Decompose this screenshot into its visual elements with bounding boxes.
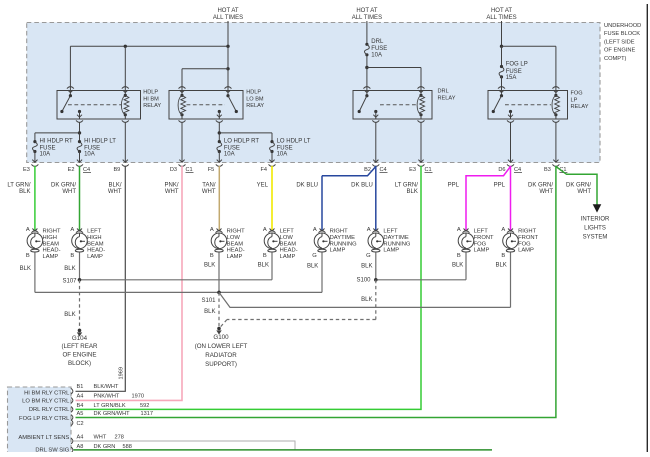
svg-text:A: A: [313, 227, 317, 233]
svg-text:INTERIOR: INTERIOR: [581, 216, 610, 222]
svg-text:DK GRN/WHT: DK GRN/WHT: [94, 411, 131, 417]
svg-text:LO BM RLY CTRL: LO BM RLY CTRL: [22, 399, 70, 405]
svg-text:OF ENGINE: OF ENGINE: [604, 48, 635, 54]
svg-text:PPL: PPL: [494, 182, 506, 188]
svg-text:S101: S101: [201, 298, 216, 304]
svg-text:HI HDLP RT: HI HDLP RT: [40, 139, 73, 145]
svg-text:10A: 10A: [371, 53, 382, 59]
svg-text:ALL TIMES: ALL TIMES: [213, 15, 243, 21]
svg-text:LEFT: LEFT: [383, 229, 398, 235]
svg-text:DK GRN/: DK GRN/: [528, 182, 553, 188]
svg-text:A8: A8: [77, 444, 84, 450]
svg-text:LIGHTS: LIGHTS: [584, 226, 606, 232]
svg-text:LO BM: LO BM: [246, 96, 264, 102]
svg-text:278: 278: [115, 435, 124, 441]
svg-text:LAMP: LAMP: [43, 254, 59, 260]
svg-text:BLK: BLK: [64, 312, 75, 318]
svg-text:RELAY: RELAY: [438, 95, 456, 101]
svg-text:HDLP: HDLP: [143, 90, 158, 96]
svg-text:A4: A4: [77, 393, 84, 399]
svg-text:RUNNING: RUNNING: [383, 241, 411, 247]
svg-text:DK BLU: DK BLU: [296, 182, 318, 188]
svg-text:B: B: [263, 253, 267, 259]
svg-text:BLK: BLK: [204, 309, 215, 315]
svg-text:B: B: [457, 253, 461, 259]
svg-text:B: B: [26, 253, 30, 259]
svg-text:DRL SW SIG: DRL SW SIG: [35, 448, 69, 452]
svg-text:WHT: WHT: [62, 189, 76, 195]
svg-text:592: 592: [140, 403, 149, 409]
svg-text:B3: B3: [544, 167, 551, 173]
svg-text:S107: S107: [62, 278, 77, 284]
svg-text:HEAD-: HEAD-: [280, 248, 298, 254]
svg-text:LAMP: LAMP: [87, 254, 103, 260]
svg-text:BLK: BLK: [361, 264, 372, 270]
svg-text:BLK: BLK: [407, 189, 418, 195]
svg-text:(ON LOWER LEFT: (ON LOWER LEFT: [195, 343, 248, 350]
svg-text:F5: F5: [208, 167, 215, 173]
svg-text:YEL: YEL: [257, 182, 269, 188]
svg-text:DAYTIME: DAYTIME: [330, 235, 355, 241]
svg-text:WHT: WHT: [202, 189, 216, 195]
svg-text:PNK/WHT: PNK/WHT: [94, 393, 120, 399]
svg-text:1970: 1970: [132, 393, 144, 399]
svg-text:G104: G104: [72, 335, 88, 342]
svg-text:LEFT: LEFT: [87, 229, 102, 235]
svg-text:B1: B1: [77, 384, 84, 390]
svg-text:BLK: BLK: [258, 263, 269, 269]
svg-text:BEAM: BEAM: [280, 241, 297, 247]
svg-text:WHT: WHT: [577, 189, 591, 195]
svg-text:10A: 10A: [40, 151, 51, 157]
svg-text:G100: G100: [213, 334, 229, 341]
svg-text:RIGHT: RIGHT: [518, 229, 536, 235]
svg-text:LOW: LOW: [227, 235, 241, 241]
svg-text:COMPT): COMPT): [604, 56, 627, 62]
svg-text:WHT: WHT: [94, 435, 107, 441]
svg-text:B4: B4: [77, 403, 84, 409]
svg-text:BLK: BLK: [361, 297, 372, 303]
svg-text:A4: A4: [77, 435, 84, 441]
svg-text:FUSE: FUSE: [506, 69, 522, 75]
svg-text:RELAY: RELAY: [246, 103, 264, 109]
svg-text:HDLP: HDLP: [246, 90, 261, 96]
svg-text:HI HDLP LT: HI HDLP LT: [84, 139, 116, 145]
svg-text:A: A: [26, 227, 30, 233]
svg-text:FOG LP: FOG LP: [506, 62, 528, 68]
svg-text:A: A: [70, 227, 74, 233]
svg-text:HOT AT: HOT AT: [217, 8, 238, 14]
svg-text:SUPPORT): SUPPORT): [205, 361, 237, 368]
svg-text:A: A: [263, 227, 267, 233]
svg-text:BLK/: BLK/: [108, 182, 121, 188]
svg-text:E3: E3: [23, 167, 30, 173]
svg-text:RIGHT: RIGHT: [43, 229, 61, 235]
svg-text:FUSE BLOCK: FUSE BLOCK: [604, 31, 640, 37]
svg-text:A: A: [367, 227, 371, 233]
svg-text:10A: 10A: [277, 151, 288, 157]
svg-text:A: A: [457, 227, 461, 233]
svg-text:E2: E2: [68, 167, 75, 173]
svg-text:ALL TIMES: ALL TIMES: [486, 15, 516, 21]
svg-text:FOG: FOG: [518, 241, 531, 247]
svg-text:BEAM: BEAM: [87, 241, 104, 247]
svg-text:LAMP: LAMP: [474, 248, 490, 254]
svg-text:G: G: [312, 253, 317, 259]
svg-text:HEAD-: HEAD-: [43, 248, 61, 254]
svg-text:SYSTEM: SYSTEM: [583, 235, 608, 241]
svg-text:LO HDLP LT: LO HDLP LT: [277, 139, 311, 145]
svg-text:15A: 15A: [506, 75, 517, 81]
svg-text:LP: LP: [571, 98, 578, 104]
svg-text:DK GRN/: DK GRN/: [51, 182, 76, 188]
svg-text:LO HDLP RT: LO HDLP RT: [224, 139, 259, 145]
svg-text:C2: C2: [77, 421, 84, 427]
svg-text:DRL: DRL: [371, 39, 384, 45]
svg-text:HEAD-: HEAD-: [87, 248, 105, 254]
svg-text:E3: E3: [409, 167, 416, 173]
svg-text:LAMP: LAMP: [330, 248, 346, 254]
svg-text:LT GRN/BLK: LT GRN/BLK: [94, 403, 126, 409]
svg-text:LT GRN/: LT GRN/: [7, 182, 30, 188]
svg-text:UNDERHOOD: UNDERHOOD: [604, 23, 641, 29]
svg-text:HEAD-: HEAD-: [227, 248, 245, 254]
svg-text:D6: D6: [498, 167, 505, 173]
svg-text:LAMP: LAMP: [227, 254, 243, 260]
svg-text:OF ENGINE: OF ENGINE: [62, 352, 96, 359]
svg-text:TAN/: TAN/: [202, 182, 216, 188]
svg-text:DRL RLY CTRL: DRL RLY CTRL: [29, 407, 70, 413]
svg-text:BLOCK): BLOCK): [68, 360, 91, 367]
svg-text:F4: F4: [260, 167, 267, 173]
svg-text:S100: S100: [356, 277, 371, 283]
svg-text:RADIATOR: RADIATOR: [205, 352, 237, 359]
svg-text:HIGH: HIGH: [43, 235, 58, 241]
svg-text:LT GRN/: LT GRN/: [395, 182, 418, 188]
svg-text:DK BLU: DK BLU: [351, 182, 373, 188]
svg-text:LEFT: LEFT: [280, 229, 295, 235]
svg-text:HIGH: HIGH: [87, 235, 102, 241]
svg-text:WHT: WHT: [108, 189, 122, 195]
svg-text:FRONT: FRONT: [474, 235, 494, 241]
svg-text:BLK: BLK: [204, 263, 215, 269]
svg-text:B: B: [210, 253, 214, 259]
svg-text:BLK: BLK: [307, 264, 318, 270]
svg-text:A: A: [501, 227, 505, 233]
svg-text:1969: 1969: [119, 367, 125, 379]
svg-text:B9: B9: [113, 167, 120, 173]
svg-text:HI BM RLY CTRL: HI BM RLY CTRL: [24, 391, 70, 397]
svg-text:A5: A5: [77, 411, 84, 417]
svg-text:LOW: LOW: [280, 235, 294, 241]
svg-text:PNK/: PNK/: [164, 182, 178, 188]
svg-text:FOG: FOG: [571, 91, 583, 97]
svg-text:DK GRN: DK GRN: [94, 444, 116, 450]
svg-text:LAMP: LAMP: [518, 248, 534, 254]
svg-text:WHT: WHT: [539, 189, 553, 195]
svg-text:BLK: BLK: [495, 263, 506, 269]
svg-text:A: A: [210, 227, 214, 233]
svg-text:(LEFT SIDE: (LEFT SIDE: [604, 39, 635, 45]
svg-text:BLK/WHT: BLK/WHT: [94, 384, 119, 390]
svg-text:WHT: WHT: [165, 189, 179, 195]
svg-text:FOG: FOG: [474, 241, 487, 247]
svg-text:BEAM: BEAM: [227, 241, 244, 247]
svg-text:FOG LP RLY CTRL: FOG LP RLY CTRL: [19, 416, 70, 422]
svg-text:DK GRN/: DK GRN/: [566, 182, 591, 188]
svg-text:(LEFT REAR: (LEFT REAR: [62, 343, 99, 350]
svg-text:HI BM: HI BM: [143, 96, 159, 102]
svg-text:10A: 10A: [84, 151, 95, 157]
svg-text:LAMP: LAMP: [383, 248, 399, 254]
svg-text:FRONT: FRONT: [518, 235, 538, 241]
svg-text:G: G: [366, 253, 371, 259]
svg-text:RIGHT: RIGHT: [227, 229, 245, 235]
svg-text:588: 588: [123, 444, 132, 450]
svg-text:ALL TIMES: ALL TIMES: [352, 15, 382, 21]
svg-text:DRL: DRL: [438, 89, 449, 95]
svg-text:B: B: [70, 253, 74, 259]
svg-text:RUNNING: RUNNING: [330, 241, 358, 247]
svg-text:RELAY: RELAY: [143, 103, 161, 109]
svg-text:BLK: BLK: [19, 189, 30, 195]
svg-text:DAYTIME: DAYTIME: [383, 235, 408, 241]
svg-text:B: B: [501, 253, 505, 259]
svg-text:BLK: BLK: [64, 266, 75, 272]
svg-text:1317: 1317: [141, 411, 153, 417]
svg-text:AMBIENT LT SENS: AMBIENT LT SENS: [18, 435, 69, 441]
svg-text:RIGHT: RIGHT: [330, 229, 348, 235]
svg-text:HOT AT: HOT AT: [356, 8, 377, 14]
svg-text:BLK: BLK: [452, 263, 463, 269]
svg-text:LAMP: LAMP: [280, 254, 296, 260]
svg-text:D3: D3: [170, 167, 177, 173]
svg-text:10A: 10A: [224, 151, 235, 157]
svg-text:LEFT: LEFT: [474, 229, 489, 235]
svg-text:RELAY: RELAY: [571, 104, 589, 110]
svg-text:PPL: PPL: [448, 182, 460, 188]
svg-text:FUSE: FUSE: [371, 46, 387, 52]
svg-text:BEAM: BEAM: [43, 241, 60, 247]
svg-text:BLK: BLK: [20, 266, 31, 272]
svg-text:HOT AT: HOT AT: [491, 8, 512, 14]
